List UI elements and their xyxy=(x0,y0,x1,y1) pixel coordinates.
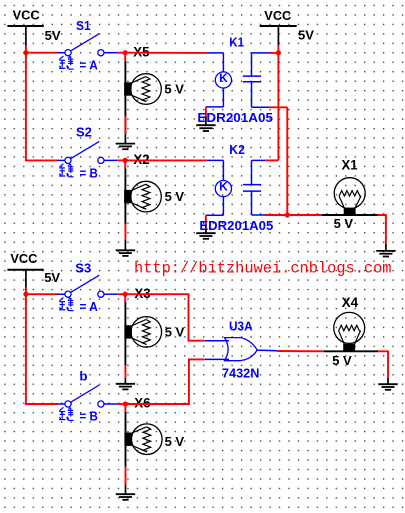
relay K1 contact xyxy=(243,53,270,107)
wire S2 to node X2 xyxy=(117,159,125,161)
wire lamp X4 to ground xyxy=(378,351,388,377)
power VCC2 xyxy=(260,8,297,46)
wire K2 contact top to right rail xyxy=(266,159,279,161)
label key = A of S1 xyxy=(59,56,98,73)
svg-text:S2: S2 xyxy=(76,125,92,140)
label X3 xyxy=(134,286,150,301)
svg-text:S1: S1 xyxy=(76,18,91,33)
svg-text:EDR201A05: EDR201A05 xyxy=(197,110,273,125)
gate input lead A xyxy=(205,340,229,342)
ground under X3 xyxy=(116,378,135,390)
label 7432N xyxy=(222,365,260,380)
label 5 V of X4 xyxy=(332,353,352,368)
ground under K2 coil xyxy=(196,225,215,239)
junction VCC2 node xyxy=(276,50,281,55)
wire K1 coil to ground xyxy=(205,107,207,116)
watermark url text xyxy=(134,260,392,278)
label K1 xyxy=(229,35,244,50)
svg-text:= A: = A xyxy=(80,299,99,314)
svg-text:5 V: 5 V xyxy=(165,325,185,340)
svg-text:= A: = A xyxy=(80,58,99,73)
relay K1 coil xyxy=(206,53,232,107)
wire VCC3 stub xyxy=(25,288,27,295)
wire K2 coil to ground xyxy=(205,215,207,224)
svg-text:U3A: U3A xyxy=(229,318,253,333)
wire X2 lamp stub xyxy=(124,160,126,168)
label X5 xyxy=(133,44,150,59)
wire X6 to gate input B xyxy=(125,359,204,404)
wire VCC1 to S1 xyxy=(26,52,57,54)
label 5 V of X5 xyxy=(164,82,184,97)
wire K1 contact bottom xyxy=(270,106,288,108)
wire X1 net to lamp X1 xyxy=(287,214,322,216)
svg-text:5 V: 5 V xyxy=(334,216,354,231)
junction VCC3 node xyxy=(23,292,28,297)
svg-text:K2: K2 xyxy=(229,142,245,157)
wire X2 to K2 coil xyxy=(125,159,207,161)
wire S1 to node X5 xyxy=(117,52,125,54)
svg-text:EDR201A05: EDR201A05 xyxy=(199,218,273,233)
wire VCC3 to S3 xyxy=(26,293,57,295)
junction X1 net xyxy=(285,212,290,217)
label X2 xyxy=(133,152,149,167)
label 5V of VCC2 xyxy=(298,27,314,42)
svg-text:K: K xyxy=(219,180,228,194)
svg-text:VCC: VCC xyxy=(10,251,37,266)
svg-text:7432N: 7432N xyxy=(222,365,260,380)
gate output lead xyxy=(257,349,277,352)
wire K2 contact bottom to X1 net xyxy=(266,214,288,216)
label U3A xyxy=(229,318,253,333)
svg-text:5V: 5V xyxy=(298,27,314,42)
wire S3 to node X3 xyxy=(117,293,125,295)
wire X3 lamp to ground xyxy=(124,366,126,378)
svg-text:5 V: 5 V xyxy=(165,189,185,204)
switch b xyxy=(57,385,117,407)
label key = B of switch b xyxy=(59,407,98,423)
lamp X3 xyxy=(124,302,161,365)
lamp X4 xyxy=(324,312,379,351)
wire VCC2 stub xyxy=(277,46,279,53)
power VCC1 xyxy=(7,7,43,45)
power VCC3 xyxy=(7,251,43,287)
wire X6 lamp stub xyxy=(124,404,126,412)
label 5V of VCC1 xyxy=(45,28,61,43)
ground under X1 xyxy=(376,244,395,257)
junction VCC1 node xyxy=(23,50,28,55)
or-gate U3A xyxy=(225,338,258,361)
svg-text:= B: = B xyxy=(80,165,98,180)
switch S3 xyxy=(57,275,117,297)
wire X5 lamp stub xyxy=(124,53,126,61)
node X6 junction xyxy=(123,401,128,406)
node X2 junction xyxy=(123,158,128,163)
label 5V of VCC3 xyxy=(44,270,60,285)
ground under K1 coil xyxy=(196,116,215,131)
wire right rail VCC2 down xyxy=(277,53,279,160)
node X3 junction xyxy=(123,292,128,297)
wire X2 lamp to ground xyxy=(124,224,126,240)
wire b to node X6 xyxy=(117,403,125,405)
svg-text:5V: 5V xyxy=(44,270,60,285)
svg-text:= B: = B xyxy=(80,409,98,424)
svg-text:5 V: 5 V xyxy=(165,434,185,449)
svg-text:X4: X4 xyxy=(342,295,359,310)
label S1 xyxy=(76,18,91,33)
svg-text:VCC: VCC xyxy=(13,7,40,22)
label b xyxy=(79,368,87,383)
svg-text:http://bitzhuwei.cnblogs.com: http://bitzhuwei.cnblogs.com xyxy=(134,260,392,278)
relay K2 coil xyxy=(206,160,232,215)
label 5 V of X1 xyxy=(334,216,354,231)
label X6 xyxy=(134,396,150,411)
node X5 junction xyxy=(123,50,128,55)
label 5 V of X6 xyxy=(165,434,185,449)
svg-text:X1: X1 xyxy=(342,158,359,173)
ground under X4 xyxy=(378,378,397,390)
label key = B of S2 xyxy=(59,164,98,181)
label S3 xyxy=(75,260,91,275)
label K2 xyxy=(229,142,245,157)
lamp X1 xyxy=(322,178,378,215)
svg-text:VCC: VCC xyxy=(264,8,291,23)
label EDR201A05 of K2 xyxy=(199,218,273,233)
lamp X2 xyxy=(124,169,161,225)
lamp X6 xyxy=(124,412,162,467)
label 5 V of X3 xyxy=(165,325,185,340)
svg-text:b: b xyxy=(79,368,87,383)
svg-text:S3: S3 xyxy=(75,260,91,275)
wire K1 contact top to VCC2 xyxy=(270,52,278,54)
switch S2 xyxy=(57,141,117,163)
ground under X5 xyxy=(116,134,135,149)
ground under X2 xyxy=(116,240,135,256)
relay K2 contact xyxy=(243,160,266,215)
lamp X5 xyxy=(124,61,161,134)
svg-text:K1: K1 xyxy=(229,35,244,50)
gate input lead B xyxy=(205,358,229,360)
label 5 V of X2 xyxy=(165,189,185,204)
wire X5 to K1 coil xyxy=(125,52,207,54)
svg-text:5 V: 5 V xyxy=(164,82,184,97)
wire mid rail down to X1 net xyxy=(286,107,288,215)
wire X6 lamp to ground xyxy=(125,467,127,485)
ground under X6 xyxy=(116,485,135,500)
wire lamp X1 to ground xyxy=(378,215,386,244)
svg-text:K: K xyxy=(219,71,228,85)
label X4 xyxy=(342,295,359,310)
label X1 xyxy=(342,158,359,173)
wire X5 lamp to ground xyxy=(124,116,126,134)
label S2 xyxy=(76,125,92,140)
label key = A of S3 xyxy=(59,298,98,315)
wire left rail VCC3 down to switch b xyxy=(26,294,57,404)
svg-text:5 V: 5 V xyxy=(332,353,352,368)
wire X3 to gate input A xyxy=(125,294,205,341)
wire left rail VCC1 down to S2 xyxy=(26,53,57,161)
label EDR201A05 of K1 xyxy=(197,110,273,125)
switch S1 xyxy=(57,34,117,56)
wire X3 lamp stub xyxy=(124,294,126,302)
wire VCC1 stub xyxy=(25,46,27,53)
svg-text:5V: 5V xyxy=(45,28,61,43)
wire gate output to lamp X4 xyxy=(277,350,324,352)
